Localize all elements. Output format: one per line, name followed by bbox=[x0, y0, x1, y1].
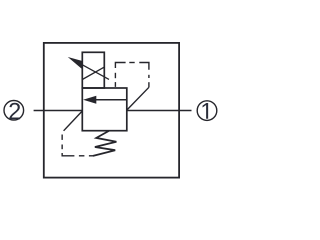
adjustment arrow shaft bbox=[78, 62, 109, 79]
vent box dashed: top-left corner piece bbox=[115, 63, 125, 69]
spring bbox=[93, 131, 116, 156]
port 1 label digit bbox=[203, 103, 209, 119]
pilot drain vertical dash b bbox=[61, 145, 63, 150]
vent connector diagonal to port 1 node bbox=[127, 87, 149, 110]
pilot drain diagonal (solid) bbox=[64, 111, 82, 130]
main flow arrow shaft bbox=[95, 99, 127, 101]
pilot drain horizontal dash a bbox=[79, 155, 85, 157]
pilot drain bottom-left corner piece bbox=[62, 153, 74, 156]
pilot stage box P1 bbox=[82, 52, 104, 88]
wire port 1 line bbox=[127, 109, 192, 111]
wire port 2 line bbox=[34, 109, 83, 111]
pilot drain horizontal dash b bbox=[89, 155, 94, 157]
vent box dashed: left edge dash a bbox=[114, 73, 116, 78]
vent box dashed: right edge dash b bbox=[148, 82, 150, 87]
port 1 circle bbox=[197, 101, 217, 121]
vent box dashed: top-right corner piece bbox=[139, 63, 149, 70]
port 2 label digit bbox=[9, 103, 20, 119]
main valve body V1 bbox=[82, 88, 127, 131]
envelope (cartridge boundary rectangle) bbox=[44, 43, 179, 178]
vent box dashed: left edge dash b bbox=[114, 82, 116, 87]
pilot drain vertical dash a bbox=[61, 135, 63, 140]
adjustment arrow head bbox=[68, 57, 83, 69]
vent box dashed: top middle dash bbox=[129, 62, 134, 64]
main flow arrow head (left pointing) bbox=[83, 96, 96, 104]
port 2 circle bbox=[4, 101, 24, 121]
pilot relief diagonal bbox=[82, 67, 104, 79]
vent box dashed: right edge dash a bbox=[148, 75, 150, 78]
